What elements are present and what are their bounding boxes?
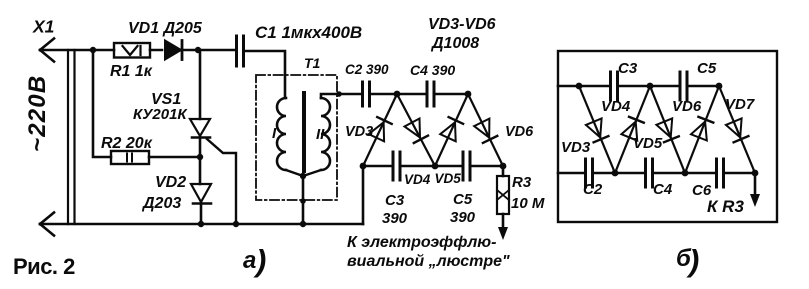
diode VD7b xyxy=(719,86,755,173)
svg-text:X1: X1 xyxy=(32,17,54,37)
label VD4b xyxy=(601,98,631,115)
wire R2 branch vertical xyxy=(93,50,111,157)
label VD5b xyxy=(633,135,663,152)
node transformer bottom xyxy=(300,173,306,179)
label 10M xyxy=(511,195,545,212)
svg-text:VD5: VD5 xyxy=(435,171,462,186)
svg-text:390: 390 xyxy=(382,210,408,227)
svg-text:VD2: VD2 xyxy=(155,174,186,191)
terminal X1 arrow xyxy=(40,39,54,62)
transformer winding II xyxy=(303,94,362,176)
label to chandelier line1 xyxy=(347,234,496,251)
label winding II xyxy=(316,126,325,143)
node T3 xyxy=(716,83,723,90)
resistor R2 xyxy=(111,151,200,164)
svg-text:VD1 Д205: VD1 Д205 xyxy=(128,20,203,37)
wire anode branch xyxy=(199,50,202,119)
svg-text:Т1: Т1 xyxy=(304,55,321,71)
diode VD5 xyxy=(435,94,468,166)
wire transformer bottom to rail xyxy=(302,176,305,224)
svg-text:~220В: ~220В xyxy=(24,75,51,152)
svg-text:а: а xyxy=(243,247,256,274)
label R2 20k xyxy=(101,135,153,152)
node A top xyxy=(394,91,401,98)
capacitor C5b xyxy=(680,72,687,100)
capacitor C6b xyxy=(717,159,724,187)
svg-text:С4 390: С4 390 xyxy=(410,62,455,78)
capacitor C1 xyxy=(237,36,286,98)
svg-text:VD4: VD4 xyxy=(601,98,631,115)
svg-text:С5: С5 xyxy=(453,191,473,208)
diode VD3b xyxy=(579,86,615,173)
diode VD4b xyxy=(615,86,650,173)
diode VD5b xyxy=(650,86,685,173)
node B3 xyxy=(752,170,759,177)
svg-text:R2 20к: R2 20к xyxy=(101,135,153,152)
transformer winding I xyxy=(277,98,303,176)
svg-text:Д1008: Д1008 xyxy=(430,35,479,52)
label T1 xyxy=(304,55,321,71)
diode VD6b xyxy=(685,86,719,173)
label C3b xyxy=(618,60,638,77)
capacitor C4 xyxy=(427,82,468,106)
node B1 xyxy=(612,170,619,177)
node B2 xyxy=(682,170,689,177)
label ~220V xyxy=(24,75,51,152)
wire A to C4 xyxy=(397,93,426,96)
wire top mains xyxy=(40,49,235,52)
wire L to C3 xyxy=(363,165,392,168)
node shield crossing xyxy=(336,91,342,97)
svg-text:Д203: Д203 xyxy=(141,195,181,212)
node R2 to cathode xyxy=(197,154,203,160)
wire b output arrow xyxy=(750,173,760,207)
label C4 390 xyxy=(410,62,455,78)
label C2 390 xyxy=(345,62,389,77)
label VD2 xyxy=(155,174,186,191)
svg-text:К электроэффлю-: К электроэффлю- xyxy=(347,234,496,251)
label VD6b xyxy=(672,98,702,115)
label C1 value xyxy=(255,23,362,42)
capacitor C2b xyxy=(586,159,593,187)
diode VD4 xyxy=(397,94,435,166)
label D1008 xyxy=(430,35,479,52)
label VD3b xyxy=(561,139,591,156)
svg-text:Рис. 2: Рис. 2 xyxy=(13,254,75,279)
svg-text:VD3: VD3 xyxy=(345,124,373,140)
svg-text:VD4: VD4 xyxy=(404,172,431,187)
node T1 xyxy=(576,83,583,90)
wire bottom rail xyxy=(40,223,363,226)
label VD4 xyxy=(404,172,431,187)
resistor R3 xyxy=(497,166,509,240)
label to chandelier line2 xyxy=(347,253,510,270)
svg-text:10 М: 10 М xyxy=(511,195,545,212)
svg-text:С3: С3 xyxy=(618,60,638,77)
resistor R1 xyxy=(114,43,150,58)
svg-text:С5: С5 xyxy=(697,60,717,77)
label C3 390 xyxy=(382,192,408,227)
svg-text:К R3: К R3 xyxy=(707,197,744,216)
node N output xyxy=(500,163,507,170)
diode VD1 xyxy=(165,41,182,60)
node M bottom xyxy=(432,163,439,170)
label b xyxy=(676,243,699,278)
label a xyxy=(243,243,266,278)
node B top xyxy=(465,91,472,98)
node top junction to R2 xyxy=(90,47,96,53)
label VD7b xyxy=(725,96,755,113)
svg-text:VD5: VD5 xyxy=(633,135,663,152)
transformer core xyxy=(302,93,306,171)
label C4b xyxy=(653,181,673,198)
svg-text:R1 1к: R1 1к xyxy=(110,63,153,80)
node T2 xyxy=(647,83,654,90)
svg-text:VD7: VD7 xyxy=(725,96,755,113)
svg-text:R3: R3 xyxy=(512,174,532,191)
label VD3-VD6 xyxy=(428,16,496,33)
diode VD2 xyxy=(191,184,211,224)
node VD2 bottom xyxy=(198,221,204,227)
label VD6 xyxy=(505,124,534,140)
svg-text:VD6: VD6 xyxy=(672,98,702,115)
svg-text:С4: С4 xyxy=(653,181,673,198)
diode VD6 xyxy=(468,94,503,166)
node after VD1 xyxy=(195,47,201,53)
capacitor C2 xyxy=(363,82,398,106)
label VD1 D205 xyxy=(128,20,203,37)
diode VD3 xyxy=(363,94,397,166)
label VD5 xyxy=(435,171,462,186)
node L bottom xyxy=(360,163,367,170)
wire L drop to rail xyxy=(362,166,365,224)
label R3 xyxy=(512,174,532,191)
capacitor C3b xyxy=(611,72,618,100)
svg-text:С2: С2 xyxy=(583,181,603,198)
label winding I xyxy=(272,125,277,142)
terminal bottom arrow xyxy=(40,213,54,236)
capacitor C4b xyxy=(646,159,653,187)
label C5b xyxy=(697,60,717,77)
svg-text:VD3-VD6: VD3-VD6 xyxy=(428,16,496,33)
svg-text:С3: С3 xyxy=(385,192,405,209)
label C2b xyxy=(583,181,603,198)
variant b box xyxy=(558,51,777,222)
node transformer rail junction xyxy=(300,221,306,227)
svg-text:С1 1мкх400В: С1 1мкх400В xyxy=(255,23,362,42)
wire VS1 cathode to node xyxy=(199,138,202,185)
svg-text:виальной „люстре": виальной „люстре" xyxy=(347,253,510,270)
svg-text:II: II xyxy=(316,126,325,143)
node gate return xyxy=(233,221,239,227)
svg-text:КУ201К: КУ201К xyxy=(133,106,188,123)
thyristor VS1 xyxy=(190,119,236,224)
label fig caption xyxy=(13,254,75,279)
capacitor C3 xyxy=(393,152,435,180)
svg-text:390: 390 xyxy=(450,209,476,226)
svg-text:VD6: VD6 xyxy=(505,124,534,140)
capacitor C5 xyxy=(435,152,503,180)
label KU201K xyxy=(133,106,188,123)
wire b top rail xyxy=(558,85,719,88)
label K R3 xyxy=(707,197,744,216)
label R1 1k xyxy=(110,63,153,80)
wire b bottom rail xyxy=(558,172,755,175)
label VD3 xyxy=(345,124,373,140)
svg-text:VD3: VD3 xyxy=(561,139,591,156)
label C5 390 xyxy=(450,191,476,226)
label VS1 xyxy=(151,91,181,108)
transformer T1 shield box xyxy=(256,75,337,200)
svg-text:С2 390: С2 390 xyxy=(345,62,389,77)
wire mains cord double line xyxy=(68,50,75,224)
label D203 xyxy=(141,195,181,212)
label C6b xyxy=(692,182,712,199)
node shield bottom crossing xyxy=(300,198,306,204)
label X1 xyxy=(32,17,54,37)
